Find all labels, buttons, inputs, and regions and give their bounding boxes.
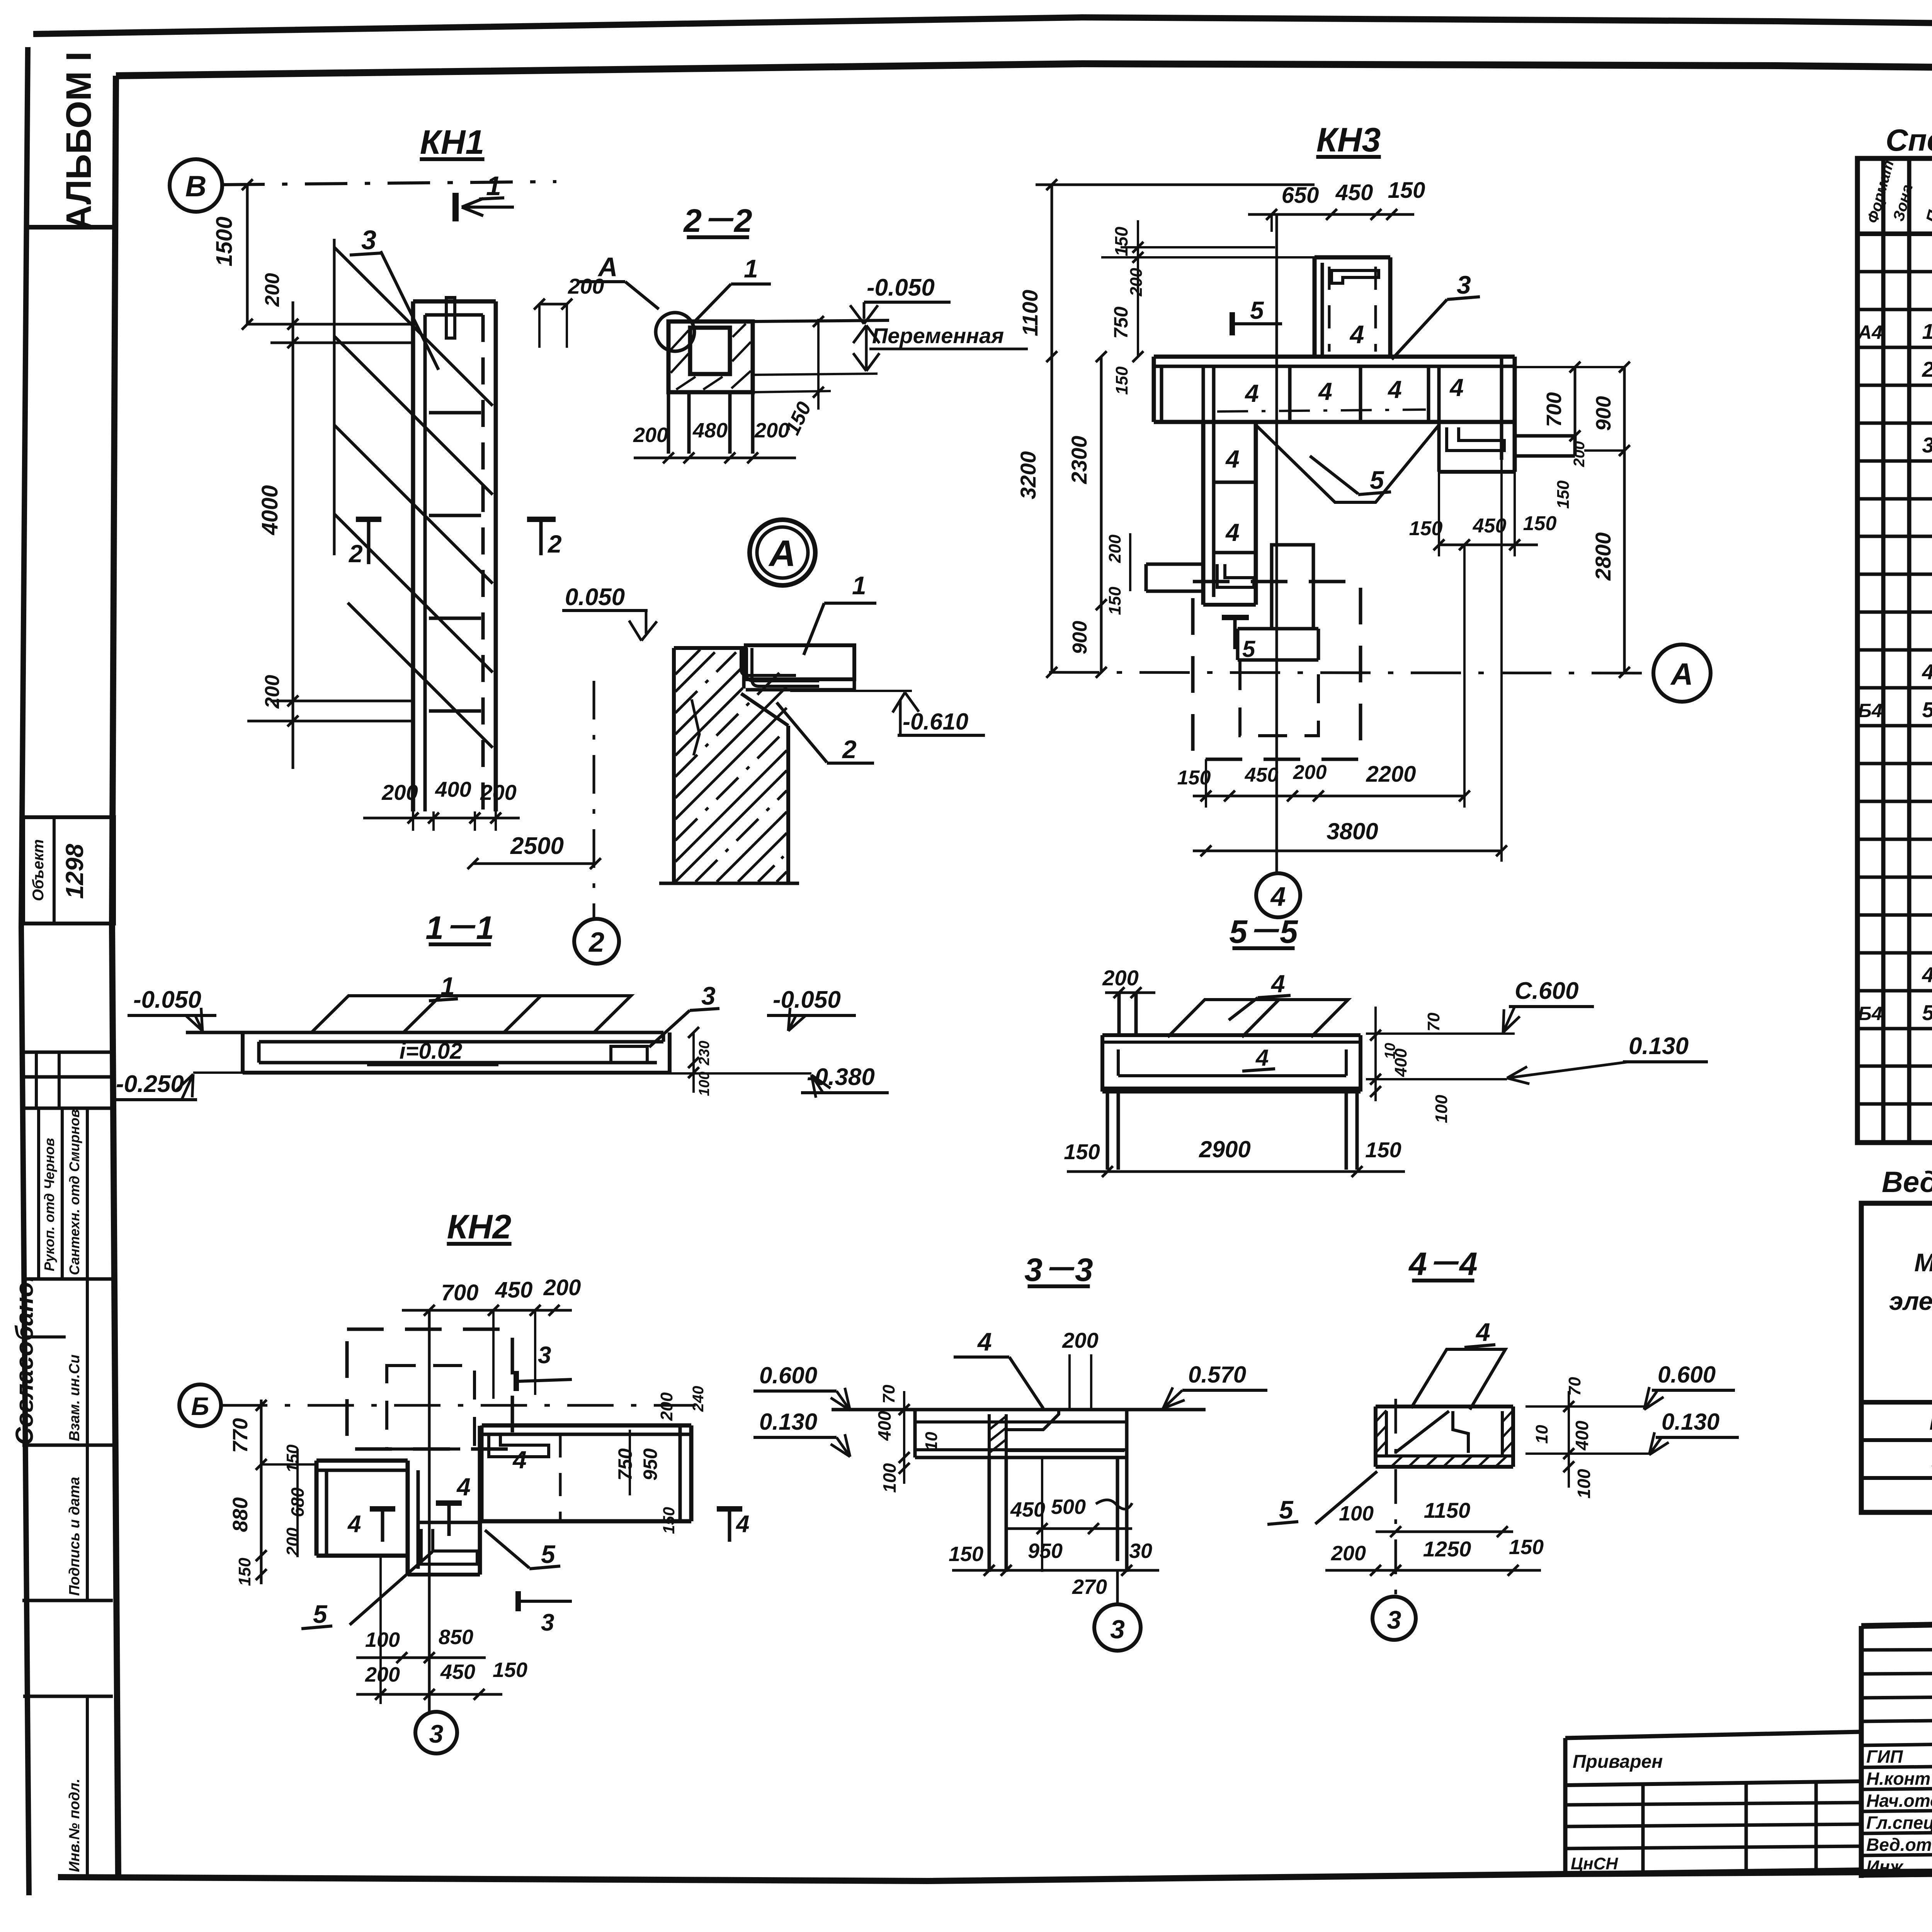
svg-text:3: 3	[538, 1342, 551, 1369]
svg-text:1150: 1150	[1424, 1498, 1470, 1522]
title block signature rows	[1861, 1764, 1932, 1767]
3-3 dims 450 500	[1006, 1527, 1132, 1530]
svg-text:5: 5	[1279, 1495, 1294, 1524]
svg-text:А: А	[1670, 657, 1693, 691]
KN2 left dims 770 880 150	[260, 1400, 263, 1584]
svg-text:1: 1	[440, 972, 455, 1000]
svg-text:150: 150	[1409, 517, 1443, 540]
3-3 dims 150 950 30	[952, 1569, 1159, 1572]
svg-text:Инж.: Инж.	[1866, 1857, 1908, 1877]
svg-text:200: 200	[754, 419, 789, 442]
svg-text:Б4: Б4	[1858, 1003, 1882, 1024]
svg-text:В: В	[185, 170, 207, 203]
sidebar small grid upper	[22, 1051, 113, 1054]
svg-text:Согласобано.: Согласобано.	[10, 1275, 38, 1445]
svg-text:3: 3	[361, 225, 376, 255]
svg-text:А: А	[597, 252, 618, 282]
svg-text:0.130: 0.130	[1662, 1409, 1719, 1435]
svg-text:5: 5	[313, 1600, 328, 1628]
svg-text:2: 2	[548, 530, 562, 558]
svg-text:3: 3	[1457, 270, 1471, 299]
svg-text:770: 770	[229, 1418, 252, 1453]
svg-text:400: 400	[1572, 1420, 1592, 1451]
svg-text:700: 700	[441, 1280, 479, 1305]
steel table outer	[1861, 1203, 1932, 1512]
svg-text:0.600: 0.600	[759, 1362, 817, 1388]
svg-text:4: 4	[1270, 881, 1286, 912]
svg-text:Б: Б	[191, 1392, 209, 1420]
svg-text:200: 200	[480, 780, 516, 804]
KN2 dashed pit outer	[347, 1329, 512, 1449]
1-1 pedestal right	[611, 1046, 647, 1063]
svg-text:3200: 3200	[1016, 451, 1040, 500]
KN1 bottom dims 200 400 200	[363, 817, 520, 820]
KN1 hatch strokes	[333, 239, 336, 555]
svg-text:200: 200	[633, 423, 668, 447]
svg-text:4: 4	[1225, 445, 1240, 473]
svg-text:5: 5	[1242, 636, 1256, 662]
svg-text:150: 150	[493, 1658, 527, 1682]
svg-text:КН1: КН1	[420, 123, 485, 161]
svg-text:4: 4	[1318, 378, 1332, 405]
svg-text:200: 200	[1293, 761, 1327, 784]
3-3 legs below	[988, 1458, 991, 1572]
5-5 channel	[1102, 1033, 1361, 1037]
svg-text:2: 2	[588, 927, 604, 958]
KN2 right band bracket	[489, 1434, 549, 1457]
svg-text:100: 100	[1339, 1502, 1374, 1525]
svg-text:4: 4	[1270, 970, 1285, 998]
2-2 bottom dims 200 480 200	[634, 457, 796, 459]
spec table outer	[1857, 158, 1932, 1143]
KN3 left protrusion lines	[1146, 563, 1203, 566]
spec table column lines	[1881, 158, 1886, 1143]
dim 2500	[473, 862, 595, 865]
svg-text:150: 150	[1523, 512, 1557, 535]
title block small grid	[1861, 1649, 1932, 1650]
svg-text:1500: 1500	[212, 216, 237, 266]
inner frame top line	[116, 64, 1932, 76]
KN3 right dims 700 900	[1574, 367, 1577, 456]
svg-text:0.130: 0.130	[1629, 1033, 1689, 1060]
svg-text:ЦнСН: ЦнСН	[1571, 1854, 1618, 1873]
svg-text:3: 3	[429, 1719, 444, 1748]
svg-text:10: 10	[1532, 1425, 1551, 1444]
2-2 channel body outer	[668, 321, 753, 392]
axis circle 4 KN3	[1256, 873, 1300, 917]
svg-text:Инв.№ подл.: Инв.№ подл.	[66, 1779, 83, 1872]
svg-text:950: 950	[1028, 1539, 1063, 1563]
svg-text:100: 100	[1574, 1469, 1594, 1498]
5-5 bottom dim	[1067, 1170, 1405, 1173]
KN3 dashed pit rect	[1193, 582, 1361, 759]
section mark 4 right	[717, 1506, 742, 1512]
KN2 right band inner dashed	[559, 1434, 562, 1521]
spec table row lines	[1857, 270, 1932, 274]
svg-text:А: А	[768, 533, 796, 574]
KN1 anchor at top	[446, 298, 455, 338]
svg-text:Объект: Объект	[30, 839, 47, 901]
svg-text:Подпись и дата: Подпись и дата	[66, 1477, 83, 1596]
KN3 bottom dims 150 450 200 2200	[1193, 795, 1464, 798]
KN3 center pedestal	[1272, 545, 1313, 629]
KN3 left dim 2300/900	[1100, 357, 1103, 672]
svg-text:4: 4	[1449, 374, 1464, 401]
1-1 small right dims	[692, 1032, 695, 1093]
svg-text:2300: 2300	[1067, 436, 1091, 485]
section mark 3 bottom (KN2)	[515, 1591, 521, 1611]
5-5 legs	[1106, 1092, 1109, 1170]
detail A title circle	[750, 520, 815, 585]
svg-text:750: 750	[1110, 306, 1132, 339]
3-3 hatched strip	[988, 1414, 991, 1458]
svg-text:2900: 2900	[1199, 1136, 1250, 1162]
svg-text:Вед.отд.: Вед.отд.	[1866, 1835, 1932, 1855]
svg-text:4－4: 4－4	[1408, 1246, 1477, 1282]
svg-text:150: 150	[235, 1558, 254, 1586]
svg-text:850: 850	[439, 1626, 473, 1649]
KN3 left leg bracket	[1217, 564, 1254, 587]
axis circle B (KN2)	[179, 1384, 221, 1426]
svg-text:150: 150	[1388, 178, 1425, 203]
svg-text:230: 230	[696, 1041, 713, 1065]
svg-text:1: 1	[852, 571, 866, 600]
KN3 right block bracket	[1447, 427, 1504, 451]
KN3 top cell	[1313, 257, 1317, 357]
3-3 slab body	[913, 1410, 917, 1458]
svg-text:150: 150	[949, 1543, 983, 1566]
KN2 left band	[316, 1459, 408, 1463]
4-4 axis vertical	[1395, 1399, 1397, 1596]
vertical two-headed arrow (peremennaya)	[865, 327, 868, 370]
svg-text:1250: 1250	[1423, 1537, 1471, 1561]
svg-text:4: 4	[1225, 519, 1240, 546]
svg-text:3: 3	[1922, 433, 1932, 457]
svg-text:4: 4	[1255, 1045, 1269, 1071]
svg-text:200: 200	[261, 675, 284, 709]
svg-text:3: 3	[1387, 1605, 1401, 1634]
sheet outer border left line	[21, 47, 29, 1895]
svg-text:1: 1	[486, 171, 501, 201]
svg-text:1100: 1100	[1018, 290, 1042, 336]
svg-text:4: 4	[347, 1511, 361, 1537]
svg-text:Переменная: Переменная	[872, 323, 1004, 348]
KN3 left leg small dims 200 150	[1129, 533, 1131, 591]
svg-text:150: 150	[283, 1444, 302, 1473]
svg-text:200: 200	[1062, 1328, 1098, 1352]
axis line to circle 2	[593, 681, 595, 919]
detail A corner angle nested L	[747, 648, 819, 681]
KN2 right dims 750 950 200 150	[629, 1430, 631, 1495]
svg-text:2800: 2800	[1591, 532, 1615, 581]
svg-text:680: 680	[287, 1487, 308, 1517]
KN2 central axis vertical	[428, 1310, 431, 1712]
KN3 right block	[1437, 422, 1441, 472]
svg-text:200: 200	[381, 780, 418, 804]
svg-text:5: 5	[1922, 697, 1932, 722]
KN2 right band	[482, 1423, 691, 1428]
svg-text:150: 150	[1554, 480, 1573, 509]
spec table header row line	[1857, 231, 1932, 236]
3-3 ground line	[832, 1408, 1206, 1412]
section mark 2 right	[527, 517, 556, 522]
KN3 left dim 900 bottom	[1101, 605, 1102, 672]
dim 1500 vertical	[246, 185, 249, 324]
svg-text:900: 900	[1592, 396, 1615, 431]
KN2 dashed pit inner	[387, 1366, 474, 1449]
svg-text:КН2: КН2	[447, 1207, 512, 1246]
detail A wall outline	[672, 648, 676, 883]
KN3 top dims 650 450 150	[1248, 213, 1414, 216]
svg-text:элемента: элемента	[1889, 1287, 1932, 1315]
svg-text:450: 450	[1335, 180, 1373, 205]
KN3 dims 150 450 150 mid-right	[1439, 544, 1538, 546]
KN1 inner cell lines	[429, 709, 481, 713]
axis circle 2	[574, 919, 619, 964]
svg-text:0.600: 0.600	[1658, 1362, 1716, 1388]
svg-text:4: 4	[1387, 376, 1402, 403]
1-1 slab	[186, 1031, 663, 1034]
svg-text:5: 5	[1370, 466, 1384, 494]
svg-text:КН1: КН1	[1929, 1409, 1932, 1435]
svg-text:100: 100	[879, 1463, 900, 1493]
svg-text:200: 200	[1331, 1542, 1366, 1565]
4-4 dims 200 1250 150	[1325, 1569, 1541, 1572]
svg-text:10: 10	[1382, 1043, 1398, 1059]
KN3 horizontal axis A	[1049, 672, 1648, 673]
dim 150 right of 2-2	[817, 319, 820, 410]
axis circle 3 (KN2)	[415, 1712, 457, 1753]
svg-text:-0.050: -0.050	[867, 274, 935, 301]
detail A wall hatch	[675, 650, 700, 674]
KN2 center column	[406, 1461, 410, 1575]
5-5 right rotated dims	[1374, 1007, 1377, 1101]
svg-text:5: 5	[1250, 296, 1264, 324]
2-2 top surface line	[753, 320, 889, 321]
4-4 box	[1376, 1405, 1513, 1408]
KN1 panel inner walls	[423, 315, 427, 811]
svg-text:4: 4	[1349, 320, 1364, 349]
svg-text:Взам. ин.Си: Взам. ин.Си	[66, 1354, 83, 1441]
svg-text:А4: А4	[1857, 321, 1883, 343]
svg-text:4: 4	[735, 1511, 749, 1537]
KN2 top dims 700 450 200	[402, 1309, 572, 1312]
KN3 left dim 1100	[1051, 185, 1053, 357]
svg-text:-0.050: -0.050	[133, 986, 201, 1013]
svg-text:450: 450	[440, 1660, 475, 1684]
section mark 4 left-center	[520, 1498, 546, 1499]
KN2 center bracket	[421, 1529, 477, 1564]
KN3 inner dashed rect	[1240, 660, 1318, 736]
svg-text:4: 4	[512, 1446, 527, 1474]
svg-text:450: 450	[1245, 764, 1279, 786]
svg-text:3800: 3800	[1327, 818, 1378, 844]
svg-text:Сантехн. отд Смирнов: Сантехн. отд Смирнов	[66, 1109, 82, 1275]
svg-text:3: 3	[1110, 1615, 1125, 1644]
svg-text:200: 200	[657, 1392, 676, 1421]
svg-text:950: 950	[639, 1448, 661, 1481]
sidebar approval names zone	[22, 1277, 113, 1281]
axis circle 3 (3-3)	[1116, 1570, 1119, 1604]
svg-text:200: 200	[1105, 534, 1124, 563]
svg-text:900: 900	[1069, 621, 1091, 655]
svg-text:70: 70	[1424, 1012, 1443, 1031]
2-2 cavity	[690, 328, 730, 374]
svg-text:100: 100	[696, 1071, 713, 1096]
svg-text:4: 4	[1922, 963, 1932, 987]
svg-text:ГИП: ГИП	[1866, 1747, 1903, 1767]
svg-text:Марка: Марка	[1914, 1248, 1932, 1277]
svg-text:2: 2	[349, 540, 363, 568]
dim chain 200 4000 200	[292, 301, 294, 769]
svg-text:10: 10	[922, 1432, 941, 1451]
svg-text:3: 3	[541, 1609, 554, 1636]
5-5 upstand	[1117, 993, 1121, 1037]
svg-text:3: 3	[701, 981, 716, 1010]
svg-text:5－5: 5－5	[1229, 913, 1298, 950]
svg-text:70: 70	[879, 1384, 898, 1403]
svg-text:480: 480	[692, 419, 728, 442]
svg-text:100: 100	[365, 1628, 400, 1651]
svg-text:150: 150	[1111, 226, 1131, 256]
privaren lower grid	[1565, 1803, 1860, 1805]
svg-text:2: 2	[842, 735, 857, 764]
detail A slab 1	[746, 645, 854, 679]
svg-text:0.050: 0.050	[565, 584, 625, 611]
svg-text:240: 240	[690, 1386, 707, 1412]
svg-text:0.570: 0.570	[1188, 1362, 1246, 1388]
svg-text:270: 270	[1072, 1575, 1107, 1599]
svg-text:-0.380: -0.380	[807, 1064, 875, 1090]
inner frame left line	[112, 76, 118, 1877]
svg-text:150: 150	[660, 1507, 678, 1534]
svg-text:Б4: Б4	[1858, 700, 1882, 721]
svg-text:-0.050: -0.050	[773, 986, 841, 1013]
svg-text:880: 880	[229, 1497, 252, 1532]
svg-text:4: 4	[1244, 379, 1259, 407]
KN3 center axis vertical	[1276, 214, 1278, 873]
svg-text:КН3: КН3	[1316, 121, 1381, 159]
KN1 panel outer rect	[413, 299, 496, 304]
svg-text:200: 200	[1127, 268, 1146, 297]
sidebar box vzam inv	[22, 1335, 66, 1338]
svg-text:-0.610: -0.610	[903, 709, 968, 735]
svg-text:200: 200	[261, 273, 284, 307]
svg-text:150: 150	[1105, 587, 1124, 615]
KN2 bottom dims 200 450 150	[356, 1693, 502, 1696]
svg-text:400: 400	[874, 1411, 895, 1441]
svg-text:200: 200	[283, 1527, 302, 1556]
1-1 plates on top	[311, 996, 631, 1032]
section mark 5 lower KN3	[1222, 615, 1249, 620]
KN2 inner left dims 150 680 200	[296, 1449, 299, 1557]
svg-text:2500: 2500	[510, 833, 564, 859]
svg-text:Ведомость расхода стали на: Ведомость расхода стали на элемент, кг	[1882, 1166, 1932, 1199]
svg-text:200: 200	[365, 1663, 400, 1686]
svg-text:4: 4	[456, 1473, 471, 1501]
3-3 squiggle break	[1096, 1500, 1132, 1509]
sidebar box podpis i data	[22, 1599, 113, 1602]
svg-text:1－1: 1－1	[425, 910, 494, 946]
svg-text:200: 200	[543, 1275, 581, 1300]
svg-text:5: 5	[541, 1540, 556, 1568]
axis dash-dot line from V	[222, 182, 556, 185]
svg-text:i=0.02: i=0.02	[400, 1039, 463, 1064]
svg-text:4000: 4000	[257, 485, 282, 535]
KN3 left small dims 150 750	[1137, 220, 1139, 357]
svg-text:0.130: 0.130	[759, 1409, 817, 1435]
svg-text:С.600: С.600	[1515, 978, 1578, 1004]
svg-text:Гл.спец: Гл.спец	[1866, 1813, 1932, 1833]
svg-text:АЛЬБОМ I: АЛЬБОМ I	[59, 51, 99, 231]
svg-text:4: 4	[1475, 1318, 1490, 1346]
svg-text:-0.250: -0.250	[116, 1071, 184, 1097]
svg-text:200: 200	[1102, 966, 1138, 990]
svg-text:150: 150	[1112, 366, 1131, 395]
2-2 legs below	[667, 392, 670, 454]
svg-text:750: 750	[614, 1448, 636, 1481]
KN3 top cell dashed center	[1328, 267, 1331, 352]
2-2 cavity bottom ext line	[755, 374, 878, 375]
privaren block	[1565, 1732, 1860, 1738]
section mark 1 top	[452, 193, 459, 221]
svg-text:2: 2	[1922, 357, 1932, 381]
svg-text:Рукоп. отд Чернов: Рукоп. отд Чернов	[41, 1138, 57, 1271]
axis circle A right	[1653, 645, 1711, 702]
svg-text:5: 5	[1922, 1000, 1932, 1025]
svg-text:Приварен: Приварен	[1573, 1752, 1663, 1772]
album label box	[26, 225, 116, 230]
KN2 T mark left	[436, 1500, 462, 1506]
svg-text:650: 650	[1282, 183, 1319, 208]
svg-text:700: 700	[1543, 392, 1566, 427]
svg-text:30: 30	[1129, 1539, 1152, 1563]
svg-text:2200: 2200	[1366, 762, 1416, 787]
4-4 plate rhombus	[1411, 1349, 1505, 1410]
4-4 dims 100 1150	[1376, 1531, 1513, 1533]
object box	[23, 817, 114, 923]
svg-text:1298: 1298	[61, 844, 88, 899]
4-4 inner braces	[1395, 1411, 1449, 1453]
KN3 left dim 3200	[1051, 357, 1053, 672]
section mark 3 top (KN2)	[514, 1371, 519, 1391]
svg-text:3－3: 3－3	[1024, 1252, 1093, 1288]
svg-text:Спецификация каналов КН1; КН: Спецификация каналов КН1; КН2; КН3	[1886, 123, 1932, 157]
svg-text:200: 200	[1571, 441, 1588, 468]
svg-text:Н.конт: Н.конт	[1866, 1769, 1930, 1789]
KN3 top cell bracket	[1332, 270, 1379, 283]
axis circle 3 (4-4)	[1372, 1597, 1416, 1640]
svg-text:150: 150	[1177, 767, 1211, 789]
inner frame bottom line	[58, 1867, 1932, 1881]
svg-text:100: 100	[1432, 1095, 1451, 1123]
svg-text:4: 4	[1922, 660, 1932, 684]
svg-text:150: 150	[1365, 1138, 1401, 1162]
section mark 2 left	[356, 517, 381, 522]
svg-text:1: 1	[744, 254, 758, 283]
KN2 bottom dims 100 850	[356, 1656, 486, 1659]
svg-text:Нач.отд: Нач.отд	[1866, 1791, 1932, 1811]
svg-text:1: 1	[1922, 319, 1932, 344]
svg-text:150: 150	[1509, 1536, 1544, 1559]
KN3 band inner dash-dot	[1217, 410, 1426, 412]
KN3 left leg	[1201, 422, 1206, 605]
3-3 inner bent plate	[1006, 1410, 1059, 1430]
svg-text:500: 500	[1051, 1495, 1086, 1519]
4-4 wall hatch	[1376, 1410, 1386, 1422]
svg-text:450: 450	[495, 1277, 533, 1303]
KN3 wide band	[1154, 355, 1515, 359]
